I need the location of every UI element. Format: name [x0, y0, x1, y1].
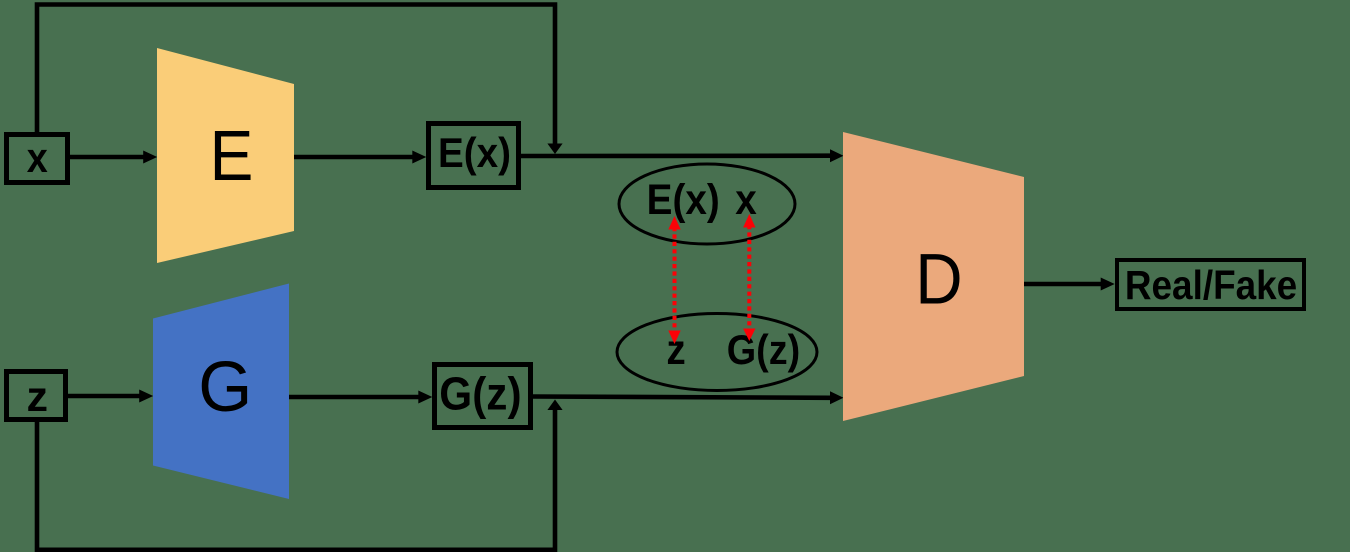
svg-text:G(z): G(z) [439, 369, 521, 420]
trapezoid generator G [153, 284, 289, 500]
wire top feedback loop from x up over to discriminator input [37, 5, 563, 155]
box x [7, 135, 68, 183]
box G(z) [435, 365, 531, 428]
box E(x) [429, 124, 519, 188]
label D [915, 240, 962, 319]
svg-text:E: E [210, 116, 254, 196]
red dashed correspondence arrow E(x) to z [668, 216, 680, 344]
svg-text:D: D [915, 240, 962, 319]
label G(z) [439, 369, 521, 420]
label z [27, 373, 49, 421]
label E(x) in top ellipse [647, 175, 720, 223]
ellipse joint (E(x), x) [619, 164, 795, 244]
svg-text:z: z [27, 373, 49, 421]
label E [210, 116, 254, 196]
label z in bottom ellipse [666, 325, 685, 373]
svg-text:G: G [198, 346, 252, 426]
label G(z) in bottom ellipse [727, 327, 800, 373]
wire G to G(z) [289, 391, 432, 404]
label E(x) [438, 128, 511, 176]
svg-text:Real/Fake: Real/Fake [1125, 263, 1297, 308]
trapezoid discriminator D [843, 132, 1024, 421]
label x in top ellipse [735, 175, 757, 223]
wire E(x) to D [521, 149, 844, 162]
label Real/Fake [1125, 263, 1297, 308]
label x [27, 135, 48, 181]
wire x to E [70, 151, 157, 164]
wire z to G [68, 390, 153, 403]
wire E to E(x) [294, 151, 426, 164]
svg-text:x: x [735, 175, 757, 223]
wire D to Real/Fake [1024, 278, 1115, 291]
red dashed correspondence arrow x to G(z) [743, 214, 755, 341]
svg-text:x: x [27, 135, 48, 181]
box Real/Fake [1117, 260, 1304, 309]
ellipse joint (z, G(z)) [617, 314, 817, 391]
box z [7, 372, 66, 420]
svg-text:E(x): E(x) [438, 128, 511, 176]
label G [198, 346, 252, 426]
svg-text:G(z): G(z) [727, 327, 800, 373]
trapezoid encoder E [157, 48, 294, 263]
wire bottom feedback loop from z under to discriminator input [37, 400, 563, 550]
svg-text:E(x): E(x) [647, 175, 720, 223]
wire G(z) to D [533, 391, 844, 404]
